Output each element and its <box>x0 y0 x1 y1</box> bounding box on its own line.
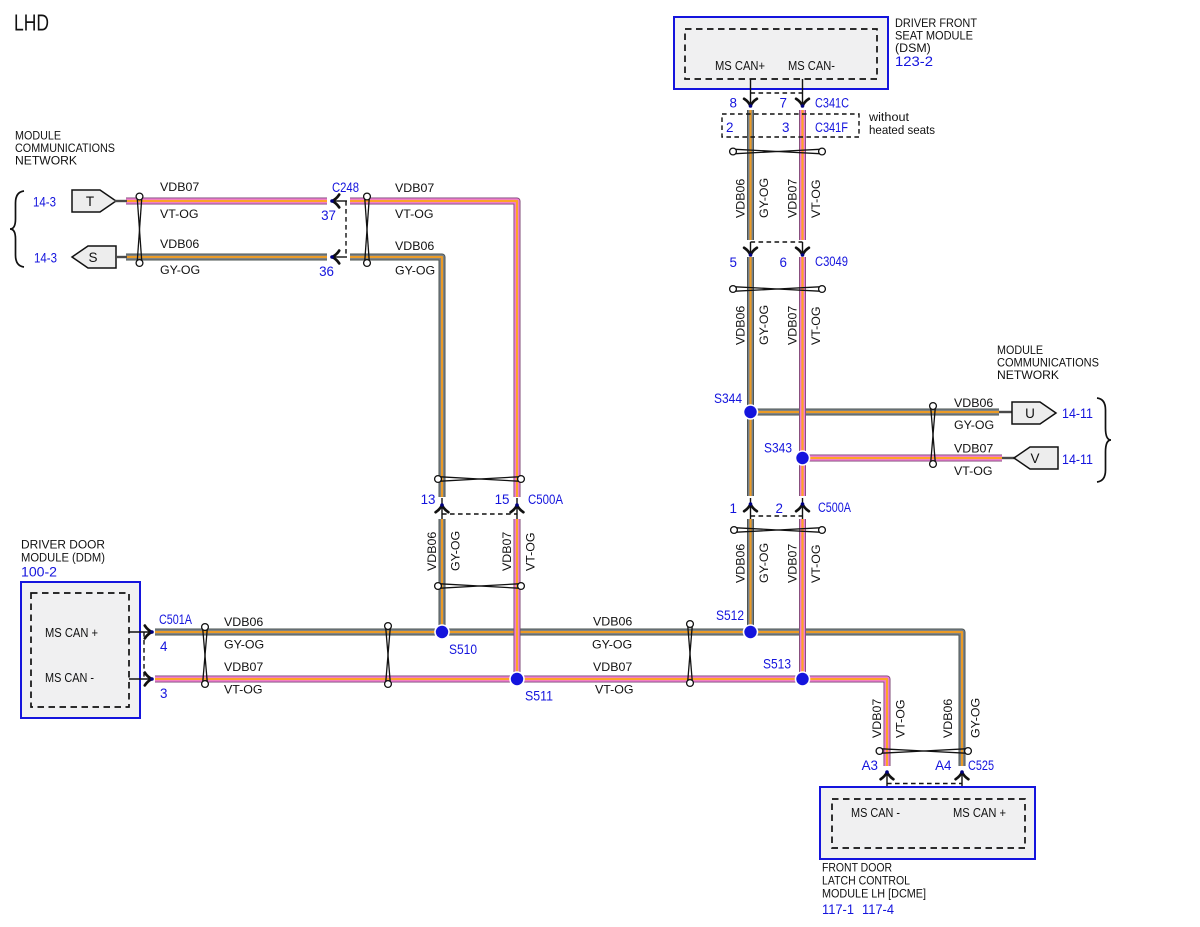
wire label VDB07 on main bus left <box>224 660 263 674</box>
svg-text:4: 4 <box>160 639 168 654</box>
label DRIVER DOOR MODULE (DDM) <box>21 538 105 565</box>
wire labels VDB07 VT-OG below C341F <box>786 179 824 218</box>
twisted-pair symbol after C248 <box>364 193 371 266</box>
svg-text:C3049: C3049 <box>815 254 848 269</box>
label S510 <box>449 642 477 657</box>
svg-text:C248: C248 <box>332 180 359 195</box>
connector C3049 label <box>815 254 848 269</box>
module box driver door module <box>21 582 140 718</box>
label MS CAN + in DCME <box>953 805 1006 820</box>
svg-text:VDB07: VDB07 <box>786 179 800 218</box>
connector C525 pin A3 stem and arrow <box>881 770 894 798</box>
wire labels VDB07 VT-OG below C3049 <box>786 306 824 345</box>
svg-text:S513: S513 <box>763 657 791 672</box>
wire VDB07 VT-OG main bus from C501A pin 3 to C525 pin A3 <box>155 679 887 766</box>
connector C341F label <box>815 120 848 135</box>
svg-text:VDB07: VDB07 <box>224 660 263 674</box>
pin number 2 at C500A <box>776 501 783 516</box>
module box front door latch control module <box>820 787 1035 859</box>
svg-text:VDB06: VDB06 <box>224 615 263 629</box>
svg-text:VDB06: VDB06 <box>734 306 748 345</box>
splice S344 <box>743 404 759 420</box>
svg-text:VT-OG: VT-OG <box>160 207 199 221</box>
wire VDB06 GY-OG main bus from C501A pin 4 to C525 pin A4 <box>155 632 962 766</box>
label S512 <box>716 608 744 623</box>
connector C500A left label <box>528 492 563 507</box>
wire label GY-OG near U <box>954 418 994 432</box>
svg-text:5: 5 <box>730 255 737 270</box>
splice S511 <box>509 671 525 687</box>
svg-text:VDB06: VDB06 <box>425 532 439 571</box>
pin number 5 at C3049 <box>730 255 737 270</box>
svg-text:GY-OG: GY-OG <box>954 418 994 432</box>
label 14-3 for connector T <box>33 195 56 210</box>
svg-text:GY-OG: GY-OG <box>757 305 771 345</box>
pin number 4 at C501A <box>160 639 168 654</box>
connector C525 pin A4 stem and arrow <box>956 770 969 798</box>
svg-text:2: 2 <box>776 501 783 516</box>
connector C501A pin 3 stem and arrow <box>129 673 154 686</box>
svg-text:VDB06: VDB06 <box>941 699 955 738</box>
svg-text:C501A: C501A <box>159 612 192 627</box>
wire labels VDB07 VT-OG below C500A right <box>786 544 824 583</box>
wire VDB07 VT-OG from connector T to C248 <box>126 198 327 205</box>
svg-text:without: without <box>868 110 910 124</box>
svg-text:36: 36 <box>319 264 334 279</box>
connector C3049 pin 5 stem and arrow <box>744 242 757 257</box>
svg-text:heated seats: heated seats <box>869 123 935 137</box>
svg-text:MS CAN +: MS CAN + <box>953 805 1006 820</box>
svg-text:14-11: 14-11 <box>1062 452 1093 467</box>
wire label VDB06 on main bus left <box>224 615 263 629</box>
svg-text:GY-OG: GY-OG <box>395 264 435 278</box>
svg-text:A4: A4 <box>935 758 952 773</box>
wire label VT-OG on main bus left <box>224 683 263 697</box>
note without heated seats <box>868 110 935 137</box>
svg-text:VDB06: VDB06 <box>734 544 748 583</box>
pin label A3 at C525 <box>862 758 878 773</box>
wire labels VDB07 VT-OG below C500A left <box>500 532 538 571</box>
twisted-pair symbol on main bus near DDM <box>202 624 209 688</box>
svg-text:VT-OG: VT-OG <box>809 544 823 583</box>
pin number 37 at C248 <box>321 208 336 223</box>
wire VDB06 GY-OG from C3049 pin 5 to C500A pin 1 <box>747 257 754 496</box>
twisted-pair symbol below C341F <box>730 148 826 155</box>
label S343 <box>764 441 792 456</box>
connector C341C pin 7 stem and arrow <box>796 79 809 108</box>
svg-text:DRIVER DOOR: DRIVER DOOR <box>21 538 105 552</box>
svg-text:S512: S512 <box>716 608 744 623</box>
twisted-pair symbol above C525 <box>876 748 971 755</box>
svg-text:14-3: 14-3 <box>34 251 57 266</box>
wire label VT-OG on main bus middle <box>595 683 634 697</box>
pin number 7 at C341C <box>780 96 787 111</box>
pin number 13 at C500A <box>421 492 436 507</box>
svg-text:VT-OG: VT-OG <box>524 532 538 571</box>
svg-text:S343: S343 <box>764 441 792 456</box>
label MS CAN - in DCME <box>851 805 900 820</box>
svg-text:VT-OG: VT-OG <box>395 207 434 221</box>
connector C500A pin 13 stem and arrow <box>436 498 449 519</box>
svg-text:MODULE LH [DCME]: MODULE LH [DCME] <box>822 887 926 901</box>
svg-text:T: T <box>86 194 94 209</box>
label 14-11 for connector V <box>1062 452 1093 467</box>
svg-text:14-3: 14-3 <box>33 195 56 210</box>
label MS CAN+ in DSM <box>715 58 765 73</box>
splice S343 <box>795 450 811 466</box>
label MS CAN- in DSM <box>788 58 835 73</box>
label 117-1 117-4 page references <box>822 902 895 917</box>
connector C3049 pin 6 stem and arrow <box>796 242 809 257</box>
wire labels VDB06 GY-OG below C500A left <box>425 531 463 571</box>
wire VDB07 VT-OG from C248 pin 37 to C500A pin 15 <box>350 201 517 497</box>
wire label VT-OG near V <box>954 464 993 478</box>
svg-text:2: 2 <box>726 120 733 135</box>
title LHD <box>14 10 49 36</box>
svg-text:VDB06: VDB06 <box>395 239 434 253</box>
svg-text:VT-OG: VT-OG <box>595 683 634 697</box>
wire labels VDB07 VT-OG above C525 <box>870 699 908 738</box>
svg-text:S: S <box>88 250 97 265</box>
wire VDB06 GY-OG from splice S344 to connector U <box>751 409 1000 416</box>
svg-text:GY-OG: GY-OG <box>757 543 771 583</box>
twisted-pair symbol above splice S510 <box>435 583 525 590</box>
wire label VDB06 on main bus middle <box>593 615 632 629</box>
svg-text:C500A: C500A <box>818 500 851 515</box>
svg-text:VT-OG: VT-OG <box>809 306 823 345</box>
svg-text:VT-OG: VT-OG <box>809 179 823 218</box>
svg-text:MODULE (DDM): MODULE (DDM) <box>21 551 105 565</box>
svg-text:VT-OG: VT-OG <box>954 464 993 478</box>
svg-text:U: U <box>1025 406 1035 421</box>
wire VDB06 GY-OG from C500A pin 1 to splice S512 <box>747 519 754 632</box>
splice S512 <box>743 624 759 640</box>
svg-text:117-1: 117-1 <box>822 902 854 917</box>
connector T (module communications network) <box>72 190 127 212</box>
svg-text:GY-OG: GY-OG <box>757 178 771 218</box>
svg-text:C525: C525 <box>968 758 994 773</box>
svg-text:VT-OG: VT-OG <box>894 699 908 738</box>
connector U (module communications network) <box>999 402 1056 424</box>
svg-text:VDB07: VDB07 <box>954 442 993 456</box>
svg-text:GY-OG: GY-OG <box>592 638 632 652</box>
wire labels VDB06 GY-OG below C3049 <box>734 305 772 345</box>
twisted-pair symbol above C500A left <box>435 476 525 483</box>
svg-text:MS CAN+: MS CAN+ <box>715 58 765 73</box>
wire VDB06 GY-OG from C341C pin 8 to C3049 pin 5 <box>747 110 754 240</box>
svg-text:15: 15 <box>495 492 510 507</box>
svg-text:VDB07: VDB07 <box>160 180 199 194</box>
connector C500A right label <box>818 500 851 515</box>
label 14-3 for connector S <box>34 251 57 266</box>
connector C525 label <box>968 758 994 773</box>
svg-text:VDB07: VDB07 <box>593 660 632 674</box>
svg-text:13: 13 <box>421 492 436 507</box>
brace right of network connectors U and V <box>1097 398 1111 482</box>
wire VDB06 GY-OG from C248 pin 36 to C500A pin 13 <box>350 257 442 497</box>
pin number 3 at C341F <box>782 120 789 135</box>
connector C3049 dashed link <box>751 241 803 243</box>
pin number 6 at C3049 <box>780 255 787 270</box>
connector C500A left dashed link <box>442 513 517 515</box>
connector C248 dashed link <box>345 201 347 257</box>
svg-text:C341C: C341C <box>815 96 849 111</box>
svg-text:C341F: C341F <box>815 120 848 135</box>
connector C501A pin 4 stem and arrow <box>129 626 154 639</box>
svg-text:GY-OG: GY-OG <box>969 698 983 738</box>
svg-text:S511: S511 <box>525 689 553 704</box>
connector V (module communications network) <box>1002 447 1058 469</box>
wire labels VDB06 GY-OG above C525 <box>941 698 983 738</box>
svg-text:MS CAN -: MS CAN - <box>851 805 900 820</box>
splice S513 <box>795 671 811 687</box>
svg-text:VDB06: VDB06 <box>954 396 993 410</box>
svg-text:14-11: 14-11 <box>1062 406 1093 421</box>
svg-text:VDB06: VDB06 <box>593 615 632 629</box>
svg-text:VDB07: VDB07 <box>870 699 884 738</box>
svg-text:3: 3 <box>782 120 789 135</box>
wire label GY-OG on main bus left <box>224 638 264 652</box>
wire label GY-OG right of C248 <box>395 264 435 278</box>
svg-text:VDB07: VDB07 <box>395 181 434 195</box>
connector C500A right dashed link <box>751 515 803 517</box>
connector C500A pin 1 stem and arrow <box>744 498 757 519</box>
svg-text:C500A: C500A <box>528 492 563 507</box>
svg-text:MS CAN -: MS CAN - <box>45 670 94 685</box>
label module communications network (left) <box>15 129 115 168</box>
label MS CAN + in DDM <box>45 625 98 640</box>
connector C341F dashed box <box>722 114 859 137</box>
svg-text:GY-OG: GY-OG <box>224 638 264 652</box>
svg-text:37: 37 <box>321 208 336 223</box>
pin number 36 at C248 <box>319 264 334 279</box>
connector C341C dashed link <box>751 92 803 94</box>
twisted-pair symbol below C500A right <box>731 527 826 534</box>
brace left of network connectors T and S <box>10 191 24 267</box>
svg-text:V: V <box>1030 451 1039 466</box>
pin number 3 at C501A <box>160 686 167 701</box>
wire label VDB07 near V <box>954 442 993 456</box>
svg-text:VT-OG: VT-OG <box>224 683 263 697</box>
label module communications network (right) <box>997 343 1099 382</box>
twisted-pair symbol on main bus right of S511 <box>687 621 694 687</box>
svg-text:A3: A3 <box>862 758 878 773</box>
label 14-11 for connector U <box>1062 406 1093 421</box>
wire label VDB07 right of C248 <box>395 181 434 195</box>
wire label VDB06 right of C248 <box>395 239 434 253</box>
splice S510 <box>434 624 450 640</box>
wire label VT-OG left of C248 <box>160 207 199 221</box>
wire VDB07 VT-OG from C3049 pin 6 to C500A pin 2 <box>799 257 806 496</box>
wire VDB06 GY-OG from connector S to C248 <box>126 254 327 261</box>
twisted-pair symbol below C3049 <box>730 286 826 293</box>
svg-text:117-4: 117-4 <box>862 902 895 917</box>
wire VDB06 GY-OG from C500A pin 13 to splice S510 <box>439 519 446 632</box>
label MS CAN - in DDM <box>45 670 94 685</box>
twisted-pair symbol after connectors T and S <box>136 193 143 266</box>
svg-text:GY-OG: GY-OG <box>160 263 200 277</box>
connector C341C pin 8 stem and arrow <box>744 79 757 108</box>
connector C525 dashed link <box>887 783 962 785</box>
twisted-pair symbol on main bus left of S510 <box>385 623 392 688</box>
pin number 15 at C500A <box>495 492 510 507</box>
pin number 8 at C341C <box>730 96 737 111</box>
svg-text:6: 6 <box>780 255 787 270</box>
connector S (module communications network) <box>72 246 127 268</box>
wire VDB07 VT-OG from C500A pin 2 to splice S513 <box>799 519 806 679</box>
connector C248 pin 37 arrow <box>330 195 347 208</box>
svg-text:8: 8 <box>730 96 737 111</box>
pin number 2 at C341F <box>726 120 733 135</box>
wire labels VDB06 GY-OG below C341F <box>734 178 772 218</box>
module box driver front seat module <box>674 17 888 89</box>
wire label GY-OG on main bus middle <box>592 638 632 652</box>
connector C500A pin 15 stem and arrow <box>511 498 524 519</box>
svg-text:VDB06: VDB06 <box>734 179 748 218</box>
wire VDB07 VT-OG from C500A pin 15 to splice S511 <box>514 519 521 679</box>
svg-text:S344: S344 <box>714 391 742 406</box>
svg-text:LATCH CONTROL: LATCH CONTROL <box>822 874 910 888</box>
svg-text:GY-OG: GY-OG <box>449 531 463 571</box>
label 123-2 page reference <box>895 54 933 69</box>
wire label VDB07 left of C248 <box>160 180 199 194</box>
label FRONT DOOR LATCH CONTROL MODULE LH [DCME] <box>822 861 926 901</box>
svg-text:(DSM): (DSM) <box>895 41 931 55</box>
svg-text:VDB07: VDB07 <box>786 306 800 345</box>
svg-text:VDB07: VDB07 <box>786 544 800 583</box>
wire VDB07 VT-OG from splice S343 to connector V <box>803 455 1003 462</box>
label S513 <box>763 657 791 672</box>
svg-text:VDB07: VDB07 <box>500 532 514 571</box>
twisted-pair symbol on U/V pair <box>930 403 937 468</box>
connector C500A pin 2 stem and arrow <box>796 498 809 519</box>
pin number 1 at C500A <box>730 501 737 516</box>
svg-text:3: 3 <box>160 686 167 701</box>
svg-text:MS CAN +: MS CAN + <box>45 625 98 640</box>
label 100-2 page reference <box>21 565 57 580</box>
svg-text:123-2: 123-2 <box>895 54 933 69</box>
label S344 <box>714 391 742 406</box>
connector C501A label <box>159 612 192 627</box>
label S511 <box>525 689 553 704</box>
pin label A4 at C525 <box>935 758 952 773</box>
connector C248 label <box>332 180 359 195</box>
wire label VDB06 near U <box>954 396 993 410</box>
svg-text:VDB06: VDB06 <box>160 237 199 251</box>
wire label GY-OG left of C248 <box>160 263 200 277</box>
wire label VDB06 left of C248 <box>160 237 199 251</box>
connector C248 pin 36 arrow <box>330 251 347 264</box>
svg-text:LHD: LHD <box>14 10 49 36</box>
wire labels VDB06 GY-OG below C500A right <box>734 543 772 583</box>
svg-text:FRONT DOOR: FRONT DOOR <box>822 861 892 875</box>
svg-text:7: 7 <box>780 96 787 111</box>
label DRIVER FRONT SEAT MODULE (DSM) <box>895 16 977 55</box>
connector C501A dashed link <box>143 632 145 679</box>
svg-text:MS CAN-: MS CAN- <box>788 58 835 73</box>
svg-text:100-2: 100-2 <box>21 565 57 580</box>
svg-text:S510: S510 <box>449 642 477 657</box>
connector C341C label <box>815 96 849 111</box>
svg-text:NETWORK: NETWORK <box>997 368 1060 382</box>
wire label VT-OG right of C248 <box>395 207 434 221</box>
wire label VDB07 on main bus middle <box>593 660 632 674</box>
wire VDB07 VT-OG from C341C pin 7 to C3049 pin 6 <box>799 110 806 240</box>
svg-text:NETWORK: NETWORK <box>15 154 78 168</box>
svg-text:1: 1 <box>730 501 737 516</box>
